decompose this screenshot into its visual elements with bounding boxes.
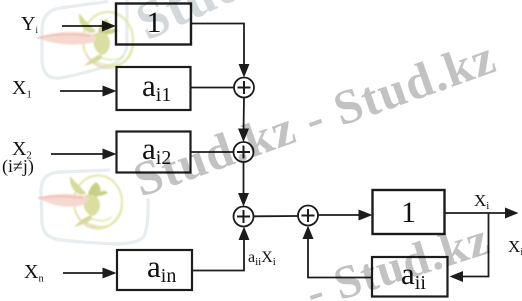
wire S3 to S4 — [254, 215, 299, 217]
block B5 gain 1 (right) — [373, 190, 445, 234]
block B3 a_i2 — [117, 132, 191, 173]
svg-text:Xi: Xi — [508, 237, 522, 258]
wire Xn input arrow — [63, 268, 117, 279]
wire S4 to B5 with arrow — [318, 210, 373, 221]
summer S4 — [298, 206, 318, 226]
plus sign S2 — [237, 146, 250, 159]
wire S1 to S2 — [238, 98, 249, 143]
summer S2 — [234, 142, 254, 162]
block B6 a_ii feedback — [372, 257, 448, 297]
summer S3 — [234, 207, 254, 227]
wire X1 input arrow — [60, 86, 117, 97]
block B1 gain 1 (top) — [116, 4, 191, 45]
svg-text:1: 1 — [401, 196, 416, 229]
watermark frame A (top-left tile border) — [42, 0, 127, 78]
watermark frame B (middle-left tile border) — [41, 170, 148, 244]
wire output branch down to B6 input — [450, 213, 489, 282]
wire B6 output feedback to S4 (left then up) — [303, 226, 373, 278]
svg-text:aiiXi: aiiXi — [248, 249, 276, 268]
watermark logo A (bird in swirl circle) — [37, 12, 133, 68]
svg-text:(i≠j): (i≠j) — [2, 156, 34, 177]
wire X2 input arrow — [51, 149, 117, 160]
wire B5 output Xi to right edge — [445, 208, 519, 219]
plus sign S1 — [238, 81, 251, 94]
block B4 a_in — [117, 250, 192, 290]
watermark logo B (bird in swirl circle) — [38, 176, 122, 229]
wire Yi input arrow — [62, 21, 116, 32]
wire B2 output to S1 — [191, 87, 235, 89]
wire B4 output to S3 (right then up) — [192, 227, 250, 271]
plus sign S4 — [302, 209, 315, 222]
block B2 a_i1 — [117, 67, 191, 110]
wire B1 output to S1 (right then down) — [191, 24, 250, 78]
wire S2 to S3 — [238, 162, 249, 207]
summer S1 — [234, 78, 254, 98]
plus sign S3 — [237, 210, 250, 223]
wire B3 output to S2 — [191, 151, 234, 153]
